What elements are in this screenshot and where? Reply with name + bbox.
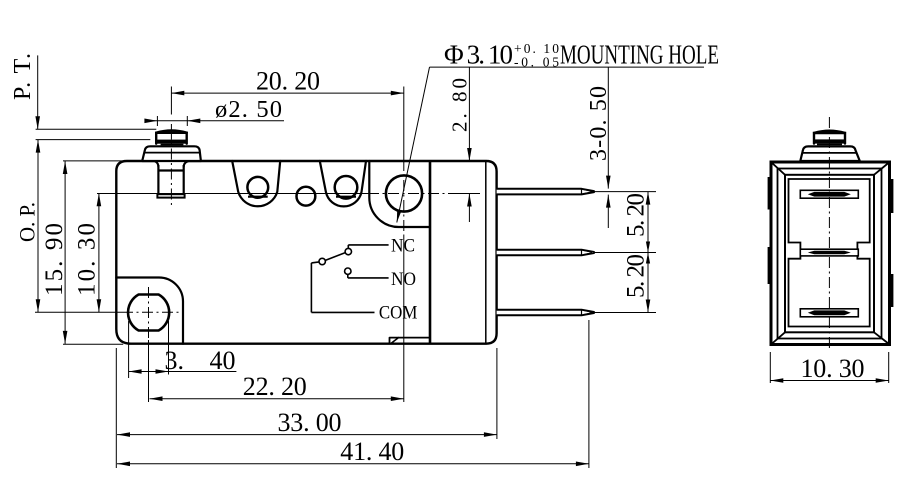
svg-text:O. P.: O. P. — [15, 202, 40, 242]
svg-text:COM: COM — [379, 304, 418, 324]
svg-text:10. 30: 10. 30 — [801, 354, 865, 383]
svg-text:Φ 3. 10: Φ 3. 10 — [444, 40, 513, 70]
svg-text:33. 00: 33. 00 — [278, 408, 342, 437]
svg-text:40: 40 — [210, 346, 236, 375]
svg-text:41. 40: 41. 40 — [340, 437, 404, 466]
svg-text:ø2. 50: ø2. 50 — [215, 96, 282, 123]
svg-text:NO: NO — [391, 270, 416, 290]
svg-text:20. 20: 20. 20 — [256, 67, 320, 96]
svg-text:3.: 3. — [165, 346, 185, 375]
svg-text:5. 20: 5. 20 — [623, 193, 650, 237]
svg-text:5. 20: 5. 20 — [623, 254, 650, 298]
svg-text:MOUNTING HOLE: MOUNTING HOLE — [560, 40, 719, 70]
svg-text:3-0. 50: 3-0. 50 — [586, 86, 612, 161]
svg-text:NC: NC — [391, 236, 415, 256]
svg-text:22. 20: 22. 20 — [243, 372, 307, 401]
